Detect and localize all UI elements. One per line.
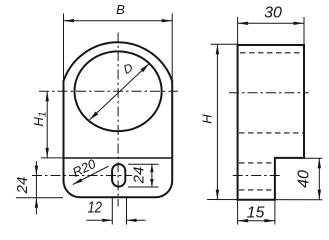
- dimension 30 line: [238, 22, 304, 24]
- dimension 24 right extension lines: [128, 163, 159, 165]
- dimension H1 step extension line: [41, 157, 64, 159]
- leader R20: [73, 166, 109, 184]
- hole circle D: [75, 51, 162, 131]
- svg-text:12: 12: [88, 200, 103, 217]
- dimension B extension lines: [63, 14, 65, 82]
- ground extension line right: [207, 199, 323, 201]
- dimension H1 line: [46, 91, 48, 158]
- dimension 24 right line: [151, 164, 153, 187]
- svg-text:24: 24: [131, 167, 148, 185]
- hidden line slot bottom: [239, 189, 274, 191]
- front view step edge: [64, 157, 173, 159]
- dimension H top extension line: [211, 43, 238, 45]
- svg-text:H: H: [199, 114, 214, 124]
- svg-text:40: 40: [296, 170, 313, 188]
- front view body outline: [64, 42, 173, 197]
- horizontal centerline front view: [39, 90, 178, 92]
- side view horizontal centerline: [229, 92, 309, 94]
- slot horizontal centerline: [32, 175, 132, 177]
- dimension 12 extension lines: [111, 198, 113, 225]
- dimension 15 extension lines: [237, 200, 239, 225]
- svg-text:B: B: [116, 2, 125, 17]
- dimension 12 line with outside arrows: [86, 219, 112, 221]
- dimension 30 extension lines: [237, 17, 239, 45]
- dimension 15 line: [238, 220, 275, 222]
- vertical centerline front view: [117, 33, 119, 207]
- side view outline: [238, 45, 304, 200]
- dimension B line: [64, 20, 173, 22]
- dimension 40 line: [318, 158, 320, 200]
- svg-text:24: 24: [14, 177, 31, 195]
- dimension 40 step extension line: [305, 157, 323, 159]
- svg-text:30: 30: [264, 4, 282, 21]
- svg-text:15: 15: [247, 205, 265, 222]
- dimension D diagonal arrow: [90, 64, 149, 120]
- slot obround: [112, 164, 125, 187]
- dimension 24 left bottom extension line: [16, 197, 63, 199]
- side view slot centerline: [233, 175, 280, 177]
- dimension H line: [216, 44, 218, 199]
- hidden line hole bottom: [239, 132, 303, 134]
- dimension 24 left line with outside arrows: [35, 161, 37, 215]
- hidden line slot top: [239, 162, 274, 164]
- hidden line hole top: [240, 52, 303, 54]
